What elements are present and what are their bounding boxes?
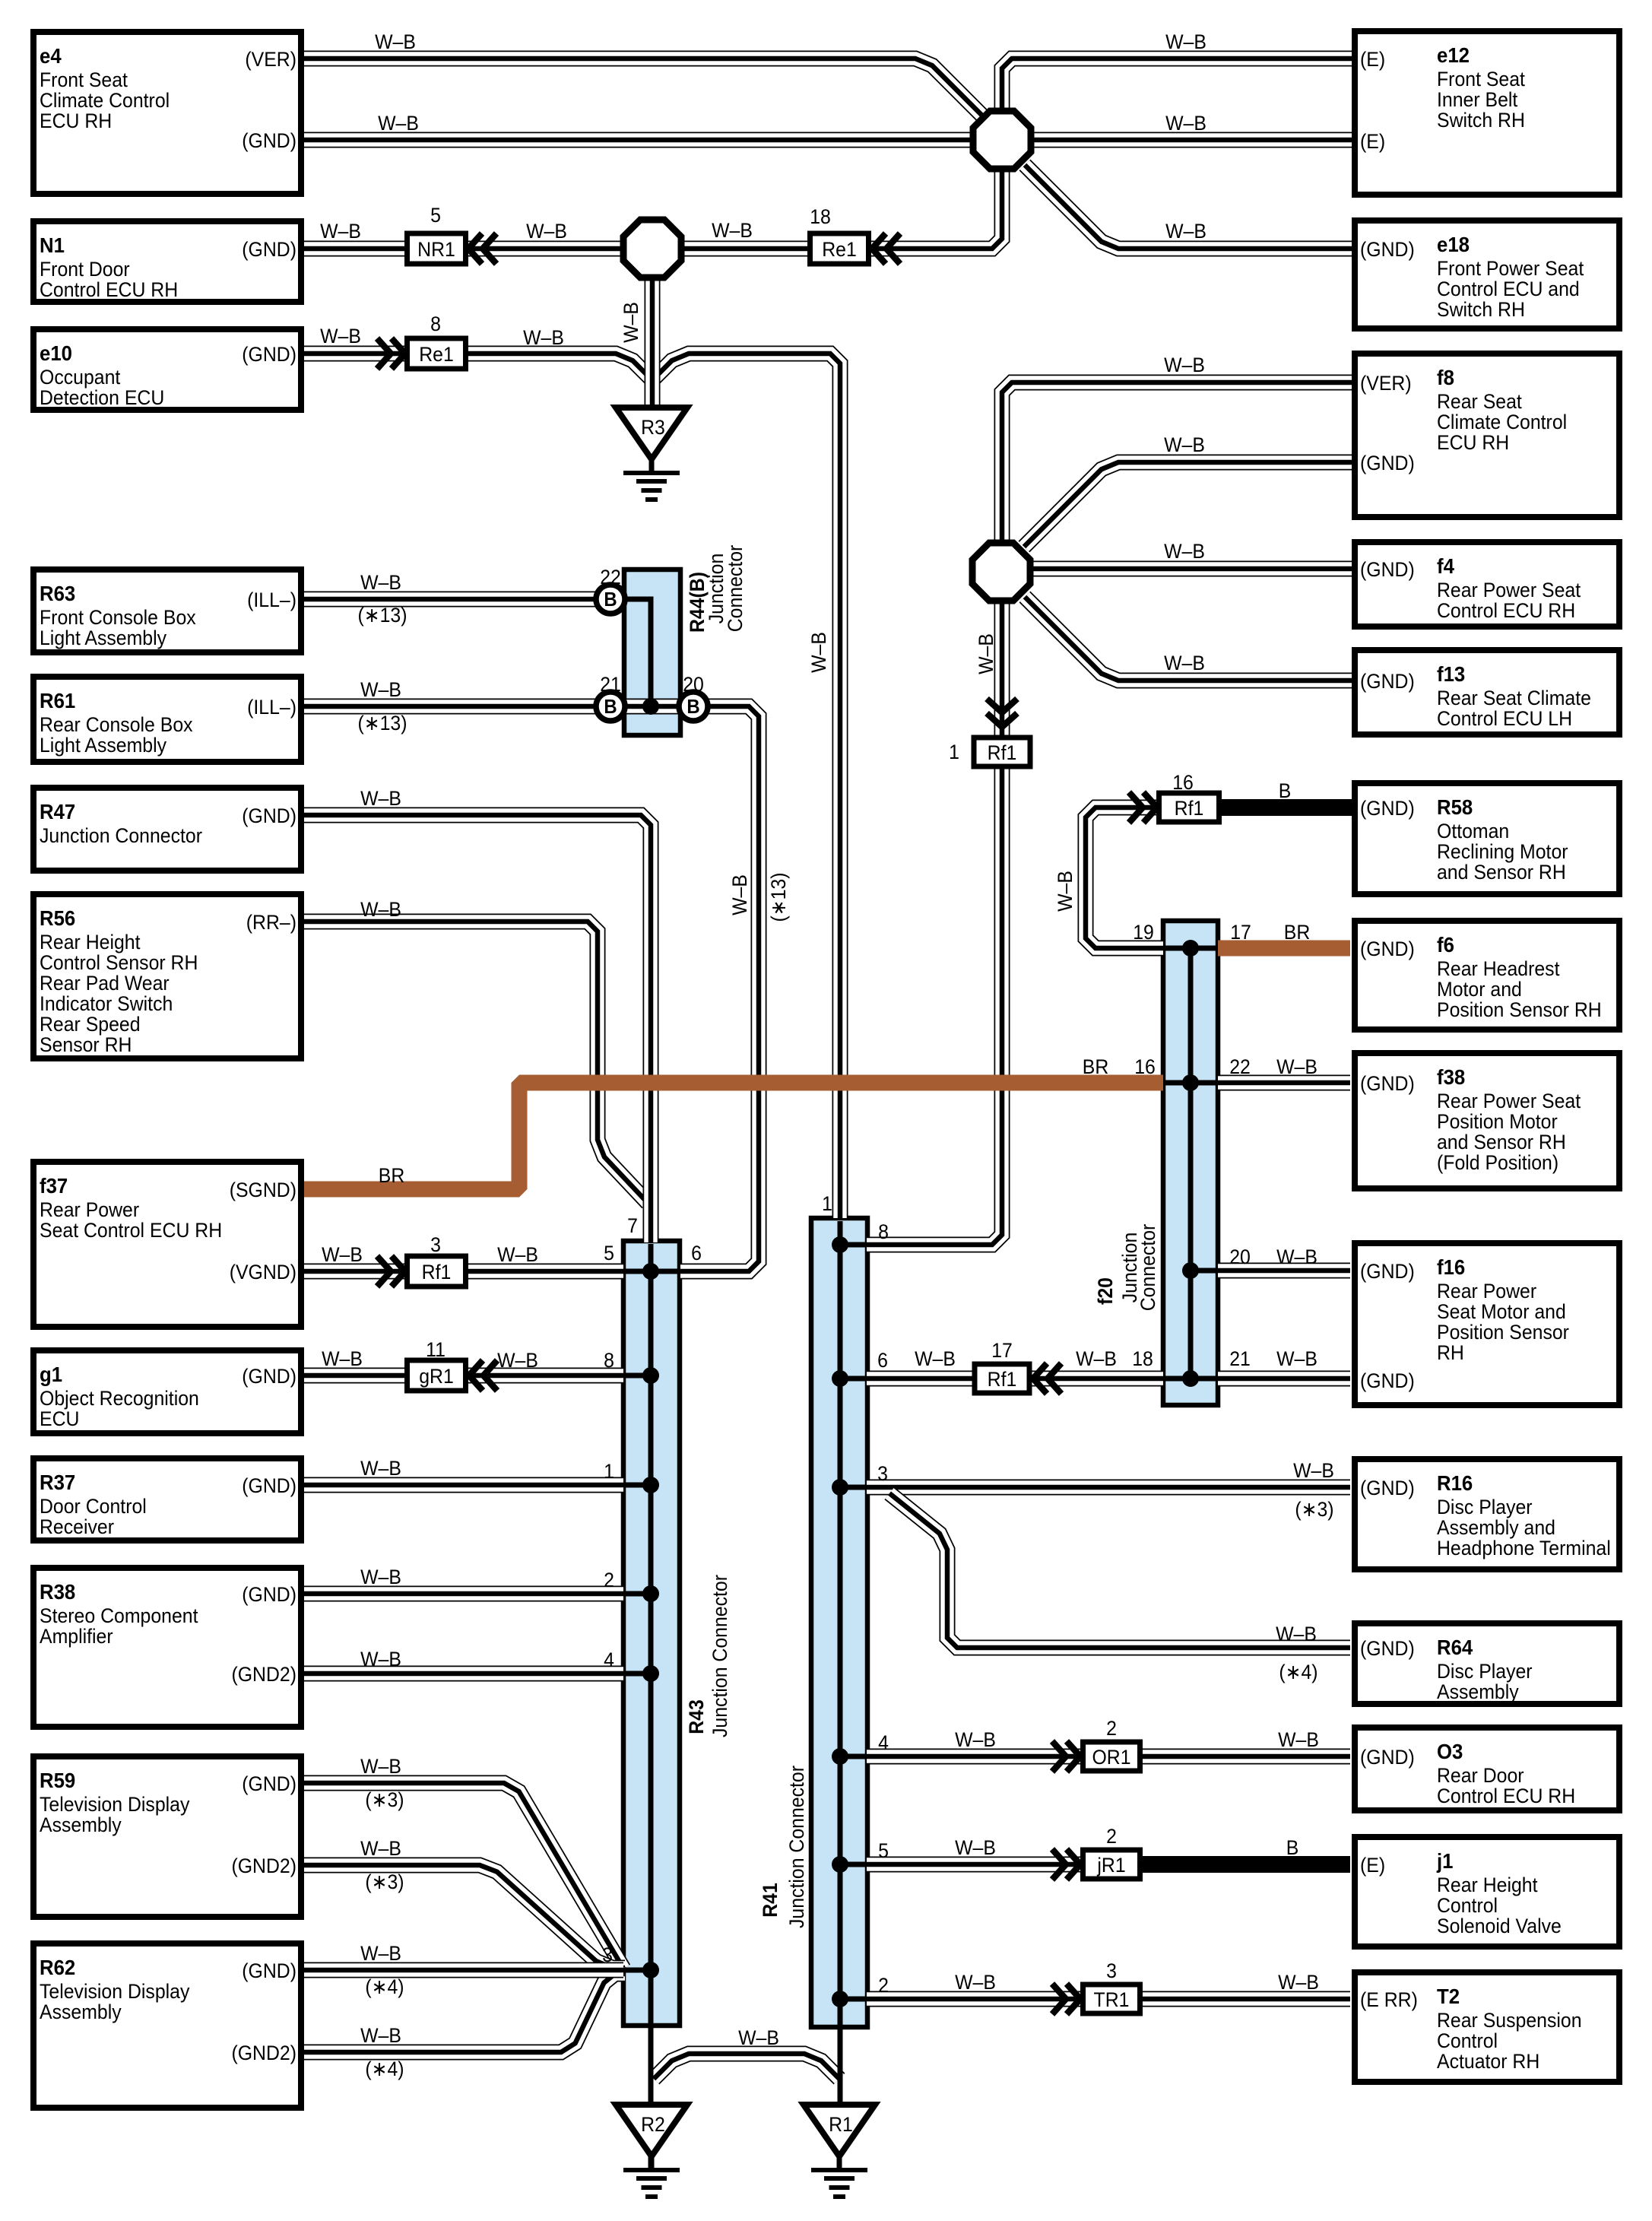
svg-text:R64: R64 — [1437, 1636, 1473, 1659]
svg-text:R41: R41 — [759, 1883, 782, 1918]
svg-text:W–B: W–B — [322, 1348, 363, 1370]
svg-text:3: 3 — [1106, 1960, 1117, 1982]
svg-text:W–B: W–B — [375, 31, 416, 53]
svg-text:16: 16 — [1172, 772, 1194, 794]
svg-text:(GND): (GND) — [1360, 1477, 1415, 1499]
svg-text:(GND): (GND) — [1360, 938, 1415, 960]
svg-text:f8: f8 — [1437, 366, 1454, 389]
svg-text:Light Assembly: Light Assembly — [40, 627, 166, 649]
svg-text:8: 8 — [604, 1350, 614, 1372]
svg-text:W–B: W–B — [738, 2027, 779, 2049]
svg-text:f16: f16 — [1437, 1255, 1465, 1279]
svg-text:Rear Door: Rear Door — [1437, 1765, 1524, 1787]
svg-text:W–B: W–B — [975, 633, 997, 674]
svg-text:(GND): (GND) — [1360, 452, 1415, 474]
svg-text:B: B — [1286, 1837, 1299, 1859]
svg-text:f13: f13 — [1437, 662, 1465, 686]
svg-text:Rear Seat Climate: Rear Seat Climate — [1437, 687, 1591, 709]
svg-text:Rf1: Rf1 — [1175, 798, 1204, 820]
svg-text:(E): (E) — [1360, 1855, 1385, 1877]
svg-text:(GND): (GND) — [242, 1960, 296, 1982]
svg-text:gR1: gR1 — [419, 1366, 454, 1388]
svg-text:Receiver: Receiver — [40, 1516, 114, 1538]
svg-text:Front Console Box: Front Console Box — [40, 607, 196, 629]
svg-text:4: 4 — [604, 1649, 614, 1671]
svg-text:(GND): (GND) — [1360, 671, 1415, 693]
svg-text:Junction Connector: Junction Connector — [40, 825, 202, 847]
svg-text:(E): (E) — [1360, 131, 1385, 153]
svg-text:(GND): (GND) — [1360, 1261, 1415, 1283]
svg-text:ECU: ECU — [40, 1408, 79, 1430]
svg-text:(∗13): (∗13) — [358, 604, 407, 627]
svg-text:(GND): (GND) — [1360, 1747, 1415, 1769]
svg-text:17: 17 — [1230, 922, 1251, 944]
svg-text:W–B: W–B — [1276, 1246, 1317, 1268]
svg-text:(RR–): (RR–) — [246, 912, 296, 934]
svg-text:(∗4): (∗4) — [365, 2058, 404, 2080]
svg-text:20: 20 — [683, 674, 704, 696]
svg-text:Control: Control — [1437, 1895, 1498, 1917]
svg-text:5: 5 — [430, 205, 441, 227]
svg-text:(VER): (VER) — [1360, 373, 1412, 395]
svg-text:Light Assembly: Light Assembly — [40, 735, 166, 757]
svg-text:Rear Console Box: Rear Console Box — [40, 714, 193, 736]
svg-text:Assembly and: Assembly and — [1437, 1517, 1555, 1539]
svg-text:R2: R2 — [641, 2114, 665, 2136]
svg-text:B: B — [604, 589, 617, 611]
svg-text:Rear Speed: Rear Speed — [40, 1014, 141, 1036]
svg-text:Television Display: Television Display — [40, 1981, 189, 2003]
svg-text:Sensor RH: Sensor RH — [40, 1034, 132, 1056]
svg-text:2: 2 — [878, 1975, 889, 1997]
svg-text:17: 17 — [991, 1340, 1013, 1362]
svg-text:W–B: W–B — [497, 1350, 538, 1372]
svg-text:N1: N1 — [40, 233, 65, 257]
svg-text:22: 22 — [600, 566, 621, 589]
svg-text:(GND): (GND) — [242, 344, 296, 366]
svg-text:R62: R62 — [40, 1956, 75, 1979]
svg-text:(SGND): (SGND) — [230, 1179, 296, 1201]
svg-text:(E RR): (E RR) — [1360, 1989, 1418, 2011]
svg-text:f37: f37 — [40, 1174, 68, 1198]
svg-text:e10: e10 — [40, 341, 72, 365]
svg-text:ECU RH: ECU RH — [40, 110, 112, 132]
svg-text:8: 8 — [430, 313, 441, 335]
svg-text:f4: f4 — [1437, 554, 1454, 578]
svg-text:Occupant: Occupant — [40, 366, 121, 389]
svg-text:(GND): (GND) — [242, 1475, 296, 1497]
svg-text:R61: R61 — [40, 689, 75, 712]
svg-text:W–B: W–B — [955, 1837, 996, 1859]
svg-text:W–B: W–B — [1278, 1729, 1319, 1751]
svg-text:7: 7 — [627, 1215, 638, 1237]
svg-text:B: B — [686, 696, 699, 718]
svg-text:W–B: W–B — [378, 113, 419, 135]
svg-text:W–B: W–B — [360, 1838, 401, 1860]
svg-text:Actuator RH: Actuator RH — [1437, 2051, 1539, 2073]
svg-text:W–B: W–B — [1164, 652, 1205, 674]
svg-text:Rear Headrest: Rear Headrest — [1437, 958, 1560, 980]
svg-text:ECU RH: ECU RH — [1437, 432, 1509, 454]
svg-text:f38: f38 — [1437, 1065, 1465, 1089]
svg-text:Control ECU RH: Control ECU RH — [1437, 600, 1575, 622]
svg-text:Amplifier: Amplifier — [40, 1626, 113, 1648]
svg-text:(GND): (GND) — [242, 1366, 296, 1388]
svg-text:T2: T2 — [1437, 1985, 1460, 2008]
svg-text:W–B: W–B — [360, 1566, 401, 1588]
svg-text:Control: Control — [1437, 2030, 1498, 2052]
svg-text:Rear Height: Rear Height — [40, 931, 141, 953]
svg-text:Reclining Motor: Reclining Motor — [1437, 841, 1568, 863]
svg-text:8: 8 — [878, 1221, 889, 1243]
svg-text:(GND2): (GND2) — [231, 1855, 296, 1877]
svg-text:(VGND): (VGND) — [230, 1261, 296, 1283]
svg-text:W–B: W–B — [526, 221, 567, 243]
svg-text:e18: e18 — [1437, 233, 1470, 256]
svg-text:TR1: TR1 — [1094, 1989, 1130, 2011]
svg-text:(E): (E) — [1360, 49, 1385, 71]
svg-text:(ILL–): (ILL–) — [247, 589, 296, 611]
svg-text:W–B: W–B — [320, 221, 361, 243]
svg-text:W–B: W–B — [360, 572, 401, 594]
svg-text:2: 2 — [1106, 1826, 1117, 1848]
svg-text:Connector: Connector — [725, 544, 747, 632]
svg-text:W–B: W–B — [1076, 1348, 1117, 1370]
svg-text:W–B: W–B — [955, 1972, 996, 1994]
svg-text:f20: f20 — [1095, 1277, 1117, 1305]
svg-text:W–B: W–B — [1278, 1972, 1319, 1994]
svg-text:e4: e4 — [40, 44, 62, 68]
svg-text:W–B: W–B — [360, 1756, 401, 1778]
svg-text:Disc Player: Disc Player — [1437, 1496, 1533, 1518]
svg-text:Control ECU and: Control ECU and — [1437, 278, 1580, 300]
svg-text:and Sensor RH: and Sensor RH — [1437, 861, 1566, 884]
svg-text:jR1: jR1 — [1096, 1855, 1125, 1877]
svg-text:R3: R3 — [641, 417, 665, 439]
svg-text:W–B: W–B — [360, 2025, 401, 2047]
svg-text:W–B: W–B — [497, 1244, 538, 1266]
svg-text:Solenoid Valve: Solenoid Valve — [1437, 1915, 1562, 1937]
svg-text:(GND): (GND) — [1360, 1073, 1415, 1095]
svg-text:Assembly: Assembly — [40, 2001, 122, 2023]
svg-text:21: 21 — [1229, 1348, 1251, 1370]
svg-text:20: 20 — [1229, 1246, 1251, 1268]
svg-text:Re1: Re1 — [419, 344, 454, 366]
svg-text:e12: e12 — [1437, 43, 1470, 67]
svg-text:18: 18 — [810, 206, 831, 228]
svg-text:4: 4 — [878, 1732, 889, 1754]
svg-text:(∗3): (∗3) — [365, 1871, 404, 1893]
svg-text:RH: RH — [1437, 1342, 1464, 1364]
svg-text:W–B: W–B — [729, 874, 751, 915]
svg-text:Television Display: Television Display — [40, 1794, 189, 1816]
svg-text:W–B: W–B — [1276, 1056, 1317, 1078]
svg-text:18: 18 — [1132, 1348, 1153, 1370]
svg-text:W–B: W–B — [360, 1943, 401, 1965]
svg-text:(GND): (GND) — [242, 130, 296, 152]
svg-text:Stereo Component: Stereo Component — [40, 1605, 198, 1627]
svg-text:W–B: W–B — [1165, 113, 1206, 135]
svg-text:Object Recognition: Object Recognition — [40, 1388, 199, 1410]
svg-text:f6: f6 — [1437, 933, 1454, 957]
svg-text:Position Motor: Position Motor — [1437, 1111, 1558, 1133]
svg-text:Assembly: Assembly — [40, 1814, 122, 1836]
svg-text:16: 16 — [1134, 1056, 1156, 1078]
svg-text:21: 21 — [600, 674, 621, 696]
svg-text:W–B: W–B — [955, 1729, 996, 1751]
svg-text:Rear Power: Rear Power — [1437, 1280, 1536, 1302]
svg-text:(GND): (GND) — [242, 805, 296, 827]
svg-text:Seat Motor and: Seat Motor and — [1437, 1301, 1566, 1323]
svg-text:(∗13): (∗13) — [358, 712, 407, 735]
svg-text:W–B: W–B — [360, 1458, 401, 1480]
svg-text:(GND): (GND) — [1360, 559, 1415, 581]
svg-text:Rear Height: Rear Height — [1437, 1874, 1538, 1896]
svg-text:OR1: OR1 — [1092, 1747, 1130, 1769]
svg-text:6: 6 — [877, 1350, 888, 1372]
svg-text:(GND): (GND) — [242, 1584, 296, 1606]
svg-text:Headphone Terminal: Headphone Terminal — [1437, 1537, 1611, 1559]
svg-text:R47: R47 — [40, 800, 75, 823]
svg-text:and Sensor RH: and Sensor RH — [1437, 1131, 1566, 1153]
svg-text:(VER): (VER) — [245, 49, 296, 71]
svg-text:Front Seat: Front Seat — [40, 69, 128, 91]
svg-text:R16: R16 — [1437, 1471, 1473, 1495]
svg-text:Position Sensor RH: Position Sensor RH — [1437, 999, 1602, 1021]
svg-text:11: 11 — [426, 1339, 446, 1361]
svg-text:Detection ECU: Detection ECU — [40, 387, 164, 409]
svg-text:Control ECU RH: Control ECU RH — [1437, 1785, 1575, 1807]
svg-text:Front Door: Front Door — [40, 259, 130, 281]
svg-text:3: 3 — [602, 1944, 613, 1966]
svg-text:W–B: W–B — [1054, 871, 1076, 912]
svg-text:BR: BR — [1284, 922, 1311, 944]
svg-text:Rear Power Seat: Rear Power Seat — [1437, 579, 1581, 601]
svg-text:Ottoman: Ottoman — [1437, 820, 1509, 842]
svg-text:W–B: W–B — [1164, 434, 1205, 456]
svg-text:Rear Pad Wear: Rear Pad Wear — [40, 972, 170, 995]
svg-text:BR: BR — [379, 1165, 405, 1187]
svg-text:R43: R43 — [686, 1699, 708, 1734]
svg-text:W–B: W–B — [1164, 354, 1205, 376]
svg-text:W–B: W–B — [322, 1244, 363, 1266]
svg-text:Rear Seat: Rear Seat — [1437, 391, 1523, 413]
svg-text:W–B: W–B — [1276, 1623, 1317, 1645]
svg-text:Switch RH: Switch RH — [1437, 299, 1525, 321]
svg-text:W–B: W–B — [712, 220, 753, 242]
svg-text:3: 3 — [877, 1463, 888, 1485]
svg-text:2: 2 — [1106, 1718, 1117, 1740]
svg-text:2: 2 — [604, 1569, 614, 1591]
svg-text:W–B: W–B — [1164, 541, 1205, 563]
svg-text:W–B: W–B — [1276, 1348, 1317, 1370]
svg-text:(∗4): (∗4) — [365, 1976, 404, 1998]
svg-text:Front Seat: Front Seat — [1437, 68, 1526, 90]
svg-text:(GND2): (GND2) — [231, 2042, 296, 2064]
svg-text:R37: R37 — [40, 1471, 75, 1494]
svg-text:1: 1 — [949, 741, 959, 763]
svg-text:(ILL–): (ILL–) — [247, 696, 296, 719]
svg-text:W–B: W–B — [1165, 31, 1206, 53]
svg-text:19: 19 — [1133, 922, 1154, 944]
svg-text:Rear Suspension: Rear Suspension — [1437, 2010, 1582, 2032]
svg-text:5: 5 — [604, 1242, 614, 1264]
svg-text:O3: O3 — [1437, 1740, 1463, 1763]
svg-text:Front Power Seat: Front Power Seat — [1437, 258, 1584, 280]
svg-text:W–B: W–B — [320, 325, 361, 347]
svg-text:Control ECU RH: Control ECU RH — [40, 279, 178, 301]
svg-text:(GND): (GND) — [1360, 1370, 1415, 1392]
svg-text:R63: R63 — [40, 582, 75, 605]
svg-text:Junction Connector: Junction Connector — [709, 1575, 731, 1737]
svg-text:(GND): (GND) — [1360, 239, 1415, 261]
svg-text:B: B — [1279, 780, 1292, 802]
svg-text:Switch RH: Switch RH — [1437, 109, 1525, 132]
svg-text:Door Control: Door Control — [40, 1496, 147, 1518]
svg-text:Disc Player: Disc Player — [1437, 1661, 1533, 1683]
svg-text:Rear Power: Rear Power — [40, 1199, 139, 1221]
svg-text:Control ECU LH: Control ECU LH — [1437, 708, 1572, 730]
svg-text:R59: R59 — [40, 1769, 75, 1792]
svg-text:(∗13): (∗13) — [768, 873, 790, 922]
svg-text:W–B: W–B — [360, 788, 401, 810]
svg-text:1: 1 — [822, 1193, 832, 1215]
svg-text:Inner Belt: Inner Belt — [1437, 89, 1518, 111]
svg-text:W–B: W–B — [620, 302, 642, 343]
svg-text:Climate Control: Climate Control — [1437, 411, 1567, 433]
svg-text:Junction Connector: Junction Connector — [786, 1766, 808, 1928]
svg-text:W–B: W–B — [523, 327, 564, 349]
svg-text:Control Sensor RH: Control Sensor RH — [40, 952, 198, 974]
svg-text:W–B: W–B — [360, 1648, 401, 1671]
svg-text:Assembly: Assembly — [1437, 1681, 1519, 1703]
svg-text:W–B: W–B — [360, 899, 401, 921]
svg-text:(Fold Position): (Fold Position) — [1437, 1152, 1558, 1174]
svg-text:(GND): (GND) — [1360, 798, 1415, 820]
svg-text:(∗4): (∗4) — [1279, 1661, 1317, 1683]
svg-text:Position Sensor: Position Sensor — [1437, 1321, 1569, 1344]
svg-text:22: 22 — [1229, 1056, 1251, 1078]
svg-text:1: 1 — [604, 1461, 614, 1483]
svg-text:Re1: Re1 — [822, 239, 857, 261]
svg-text:R38: R38 — [40, 1580, 75, 1604]
svg-text:(∗3): (∗3) — [1295, 1499, 1333, 1521]
svg-text:5: 5 — [878, 1840, 889, 1862]
svg-text:(GND): (GND) — [242, 239, 296, 261]
svg-text:Seat Control ECU RH: Seat Control ECU RH — [40, 1220, 222, 1242]
svg-text:g1: g1 — [40, 1363, 62, 1386]
svg-text:3: 3 — [430, 1234, 441, 1256]
svg-text:6: 6 — [691, 1242, 702, 1264]
svg-text:R1: R1 — [829, 2114, 853, 2136]
svg-text:R56: R56 — [40, 906, 75, 930]
svg-text:j1: j1 — [1436, 1849, 1453, 1873]
svg-text:(GND2): (GND2) — [231, 1664, 296, 1686]
svg-text:W–B: W–B — [915, 1348, 956, 1370]
svg-text:(GND): (GND) — [1360, 1638, 1415, 1660]
svg-text:Rf1: Rf1 — [988, 1369, 1017, 1391]
svg-text:Indicator Switch: Indicator Switch — [40, 993, 173, 1015]
svg-text:Rear Power Seat: Rear Power Seat — [1437, 1090, 1581, 1112]
svg-text:BR: BR — [1083, 1056, 1109, 1078]
svg-text:Connector: Connector — [1137, 1223, 1159, 1311]
svg-text:(∗3): (∗3) — [365, 1789, 404, 1811]
svg-text:W–B: W–B — [1165, 221, 1206, 243]
svg-text:W–B: W–B — [808, 632, 830, 673]
svg-text:B: B — [604, 696, 617, 718]
svg-text:Motor and: Motor and — [1437, 979, 1522, 1001]
svg-text:NR1: NR1 — [417, 239, 455, 261]
svg-text:Rf1: Rf1 — [988, 742, 1017, 764]
svg-text:W–B: W–B — [360, 679, 401, 701]
svg-text:(GND): (GND) — [242, 1773, 296, 1795]
svg-text:Rf1: Rf1 — [422, 1261, 452, 1283]
svg-text:W–B: W–B — [1293, 1460, 1334, 1482]
svg-text:Climate Control: Climate Control — [40, 90, 170, 112]
svg-text:R58: R58 — [1437, 795, 1473, 819]
